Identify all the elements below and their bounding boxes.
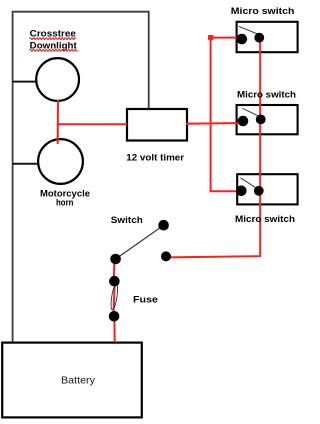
horn: motorcycle horn (circle) <box>38 139 83 184</box>
switch pivot dot <box>110 254 121 265</box>
wire: left bus from battery top-left up, across top, down into 12 volt timer <box>13 12 149 342</box>
svg-text:Micro switch: Micro switch <box>231 6 295 17</box>
box: micro switch 2 (middle) <box>237 105 298 134</box>
fuse top terminal dot <box>109 276 120 287</box>
svg-text:Fuse: Fuse <box>133 295 158 306</box>
box: battery <box>2 343 142 418</box>
red wire: micro switch output bus (right vertical) down to switch contact <box>166 38 260 257</box>
contact dot: micro switch 1 left <box>237 34 248 45</box>
lever: micro switch 1 <box>239 26 259 34</box>
box: micro switch 1 (top) <box>237 22 298 52</box>
svg-text:Battery: Battery <box>61 375 95 386</box>
switch fixed contact dot <box>161 251 171 261</box>
svg-text:Micro switch: Micro switch <box>237 89 296 100</box>
contact dot: micro switch 3 left <box>236 186 247 197</box>
contact dot: micro switch 1 right <box>254 33 264 43</box>
lever: micro switch 3 <box>241 178 259 190</box>
box: micro switch 3 (bottom) <box>237 174 297 204</box>
red wire: lamp bus junction to timer left <box>57 123 127 125</box>
wire: stub from left bus to motorcycle horn <box>13 163 39 165</box>
red junction dot at feeder corner <box>208 35 213 40</box>
fuse bottom terminal dot <box>109 311 120 322</box>
wire: stub from left bus to downlight lamp <box>13 81 37 83</box>
red wire: timer right to micro switch 2 left contact <box>186 122 243 125</box>
lever: micro switch 2 <box>242 108 259 116</box>
spellcheck squiggle under Downlight <box>30 50 78 52</box>
svg-text:Micro switch: Micro switch <box>235 214 295 225</box>
red wire: switch pivot down through fuse to battery positive <box>114 260 115 342</box>
fuse body (narrow ellipse) <box>110 284 119 310</box>
lamp: crosstree downlight (circle) <box>36 58 79 101</box>
svg-text:horn: horn <box>56 198 74 209</box>
spellcheck squiggle under Crosstree <box>30 38 76 40</box>
red wire: left feeder vertical (to micro switches 1 and 3) <box>211 38 242 192</box>
contact dot: micro switch 2 left <box>238 116 249 127</box>
switch lever arm (open) <box>116 225 164 259</box>
box: 12 volt timer <box>127 109 187 141</box>
contact dot: micro switch 2 right <box>256 115 266 125</box>
contact dot: micro switch 3 right <box>254 186 264 196</box>
red wire: downlight bottom to horn top (vertical) <box>57 100 59 144</box>
switch lever end dot <box>158 220 169 231</box>
svg-text:Switch: Switch <box>111 215 143 226</box>
svg-text:12 volt timer: 12 volt timer <box>126 153 184 164</box>
